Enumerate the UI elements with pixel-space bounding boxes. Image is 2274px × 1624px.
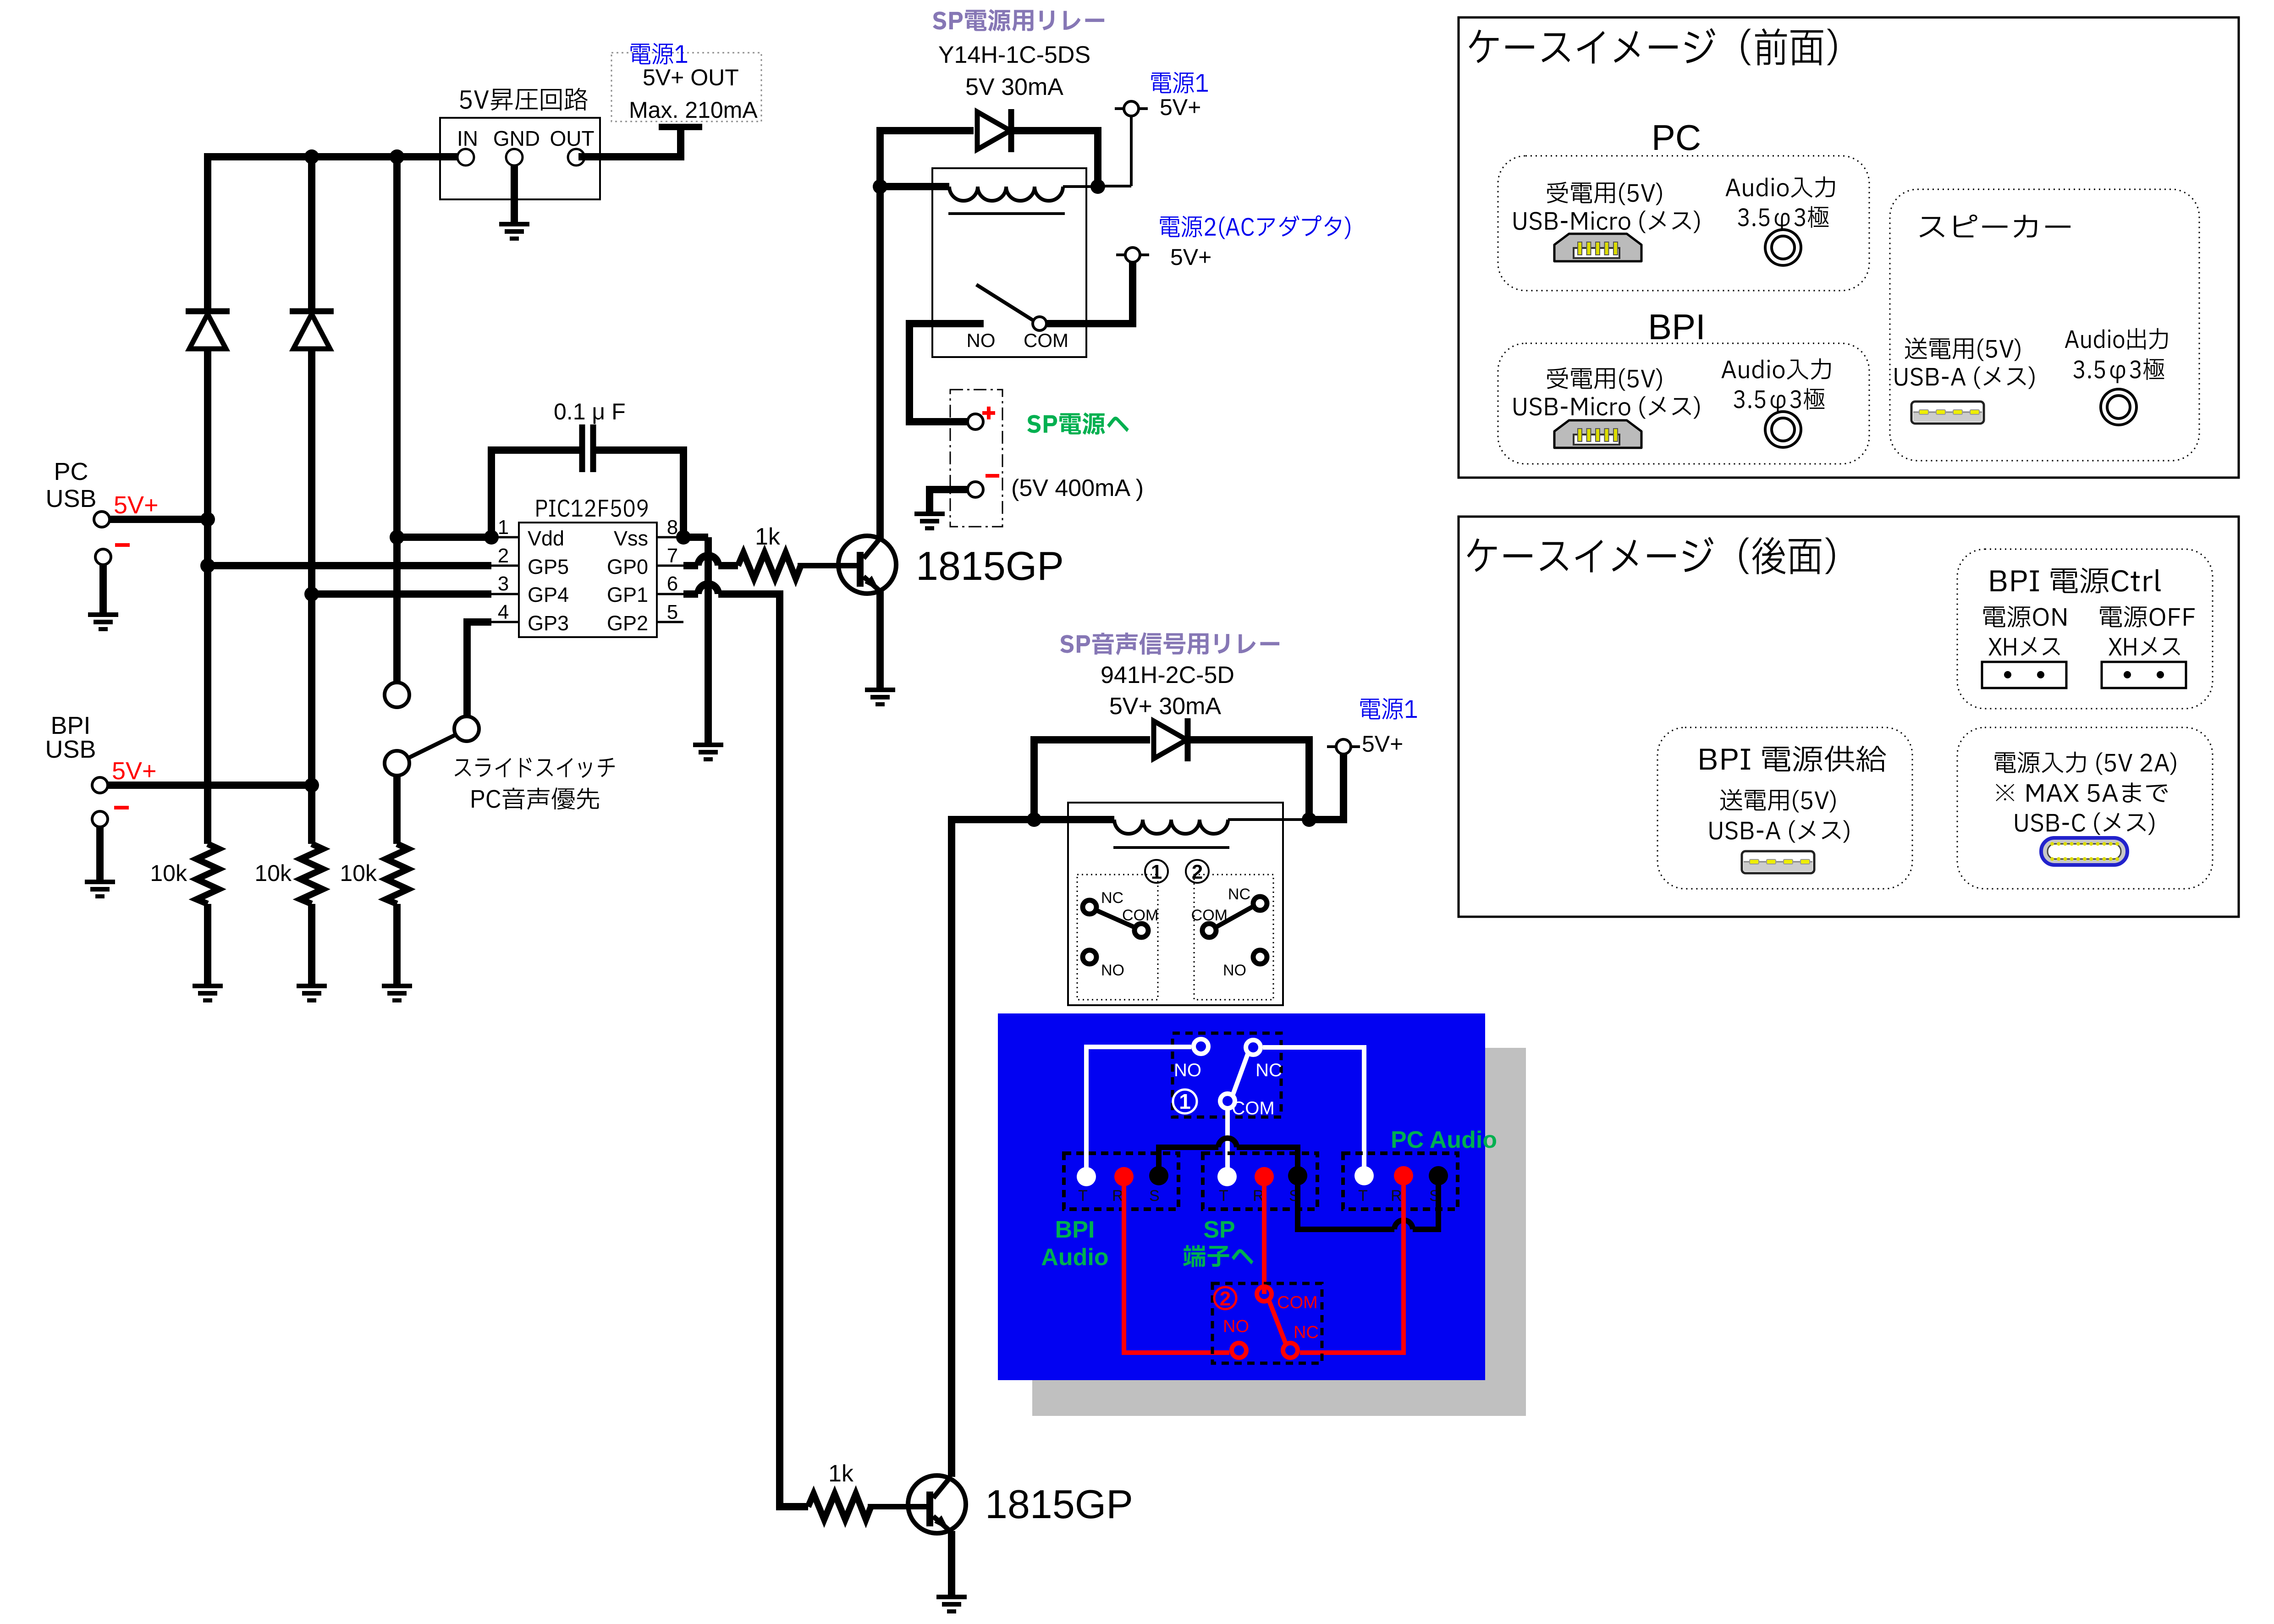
svg-text:1: 1	[1151, 861, 1162, 883]
group power input	[1957, 727, 2213, 889]
wire GP0 to R4 (hops Vss line)	[683, 562, 698, 569]
transistor Q2 1815GP	[908, 1475, 966, 1533]
photo shadow	[1032, 1048, 1526, 1416]
contact COM (photo)	[1220, 1094, 1235, 1108]
svg-text:8: 8	[667, 516, 678, 539]
diode D2	[290, 308, 334, 314]
svg-text:NC: NC	[1255, 1060, 1282, 1080]
panel case front	[1459, 17, 2239, 478]
switch SW1 slide switch	[385, 683, 409, 707]
svg-text:T: T	[1219, 1187, 1228, 1205]
svg-text:T: T	[1358, 1187, 1368, 1205]
wire Q1 emitter to ground	[876, 591, 884, 688]
terminal BPI USB minus	[114, 806, 129, 809]
junction PC-USB 5V	[200, 512, 215, 527]
svg-text:1: 1	[498, 516, 509, 539]
wire V2 upper (IN rail to diode D2)	[308, 153, 315, 311]
contact set 1 box (photo)	[1173, 1033, 1281, 1117]
svg-text:IN: IN	[457, 127, 478, 150]
wire R3 top (slide switch to R3)	[393, 775, 401, 844]
TRS terminals SP	[1203, 1153, 1317, 1209]
connector SP power out	[950, 390, 1002, 527]
terminal SP T	[1217, 1167, 1237, 1186]
svg-text:BPI: BPI	[1055, 1217, 1095, 1243]
contact NO2 (photo)	[1232, 1343, 1246, 1358]
svg-text:1815GP: 1815GP	[916, 543, 1064, 589]
ground (Q1)	[865, 688, 895, 692]
terminal PC USB minus	[115, 543, 130, 547]
svg-text:S: S	[1149, 1187, 1160, 1205]
svg-text:R: R	[1112, 1187, 1123, 1205]
junction Vss	[676, 530, 691, 545]
contact arm 2	[1217, 907, 1253, 927]
svg-text:1k: 1k	[755, 523, 781, 550]
svg-text:7: 7	[667, 545, 678, 567]
circled 2 (photo)	[1214, 1287, 1236, 1309]
icon USB-Micro receptacle	[1554, 234, 1641, 261]
icon USB-Micro receptacle	[1554, 420, 1641, 448]
svg-text:NO: NO	[967, 330, 996, 351]
ground (R3)	[382, 984, 412, 988]
photo blue background	[998, 1013, 1485, 1380]
svg-text:5V+: 5V+	[1170, 244, 1211, 270]
terminal SP+	[968, 414, 983, 429]
junction cap/Vdd	[484, 530, 499, 545]
transistor Q1 1815GP	[838, 536, 896, 594]
svg-text:BPI: BPI	[1648, 307, 1706, 347]
svg-text:T: T	[1078, 1187, 1088, 1205]
wire BPI 5V+ to V2	[108, 782, 312, 789]
ground (R1)	[193, 984, 223, 988]
ground (R2)	[297, 984, 327, 988]
junction GP4	[304, 587, 319, 601]
ground (Q2)	[936, 1595, 967, 1599]
junction RY1 coil left	[873, 179, 887, 194]
contact set 1 box	[1077, 875, 1158, 1000]
wire GP3	[463, 618, 471, 716]
contact COM2	[1202, 924, 1216, 937]
wire red PC-R to NC2	[1300, 1176, 1404, 1353]
icon 3.5mm jack	[1765, 412, 1801, 447]
svg-text:4: 4	[498, 601, 509, 623]
wire V1 lower (D1 to PC-USB node, GP5 node, R1)	[204, 347, 211, 844]
wire GP4	[312, 590, 491, 598]
svg-text:PC Audio: PC Audio	[1391, 1127, 1497, 1153]
panel case rear	[1459, 517, 2239, 917]
diode D1	[186, 308, 230, 314]
pin OUT	[568, 149, 584, 165]
TRS terminals BPI	[1064, 1153, 1178, 1209]
svg-text:941H-2C-5D: 941H-2C-5D	[1101, 662, 1234, 688]
wire R1 to ground	[204, 904, 211, 984]
wire COM to 電源2	[1046, 320, 1136, 327]
svg-text:5V+ 30mA: 5V+ 30mA	[1109, 693, 1222, 720]
terminal PC S	[1429, 1166, 1448, 1185]
contact NO2	[1253, 950, 1267, 964]
TRS terminals PC	[1343, 1153, 1458, 1209]
svg-text:2: 2	[1220, 1288, 1231, 1310]
junction RY2 coil right	[1302, 812, 1316, 827]
svg-text:NO: NO	[1223, 1317, 1249, 1336]
junction RY2 coil left	[1027, 812, 1041, 827]
wire C1 left lead	[491, 446, 579, 454]
wire 電源1 to coil right	[1130, 116, 1133, 186]
svg-text:USB: USB	[45, 485, 96, 512]
terminal PC R	[1394, 1166, 1413, 1185]
wire NO stub RY1	[909, 320, 984, 327]
relay RY2 box	[1068, 803, 1283, 1005]
wire R2 to ground	[308, 904, 315, 984]
wire Vdd rail	[397, 534, 491, 541]
contact arm 1	[1097, 911, 1134, 927]
wire SP- to ground	[930, 490, 968, 512]
wire GND stub	[511, 165, 518, 222]
svg-text:10k: 10k	[254, 860, 292, 886]
wire GP1 to R5	[780, 1503, 808, 1510]
ground (BPI USB)	[85, 880, 115, 884]
svg-text:1815GP: 1815GP	[985, 1481, 1133, 1527]
terminal 電源2	[1116, 253, 1149, 256]
wire Q1 collector to relay RY1 coil	[876, 187, 884, 538]
contact arm RY1	[976, 285, 1033, 320]
contact NC (photo)	[1246, 1040, 1261, 1055]
svg-text:GP0: GP0	[607, 555, 648, 578]
svg-text:NO: NO	[1101, 962, 1124, 979]
wire white NO (photo)	[1086, 1047, 1191, 1173]
icon 3.5mm jack	[2101, 389, 2136, 425]
terminal SP-	[968, 482, 983, 497]
wire RY1 flyback top	[880, 127, 974, 134]
wire Q2 emitter to ground	[948, 1531, 955, 1595]
icon XH connector	[2102, 662, 2186, 688]
contact set 2 box (photo)	[1212, 1283, 1322, 1363]
svg-text:COM: COM	[1232, 1098, 1274, 1118]
group speaker	[1890, 189, 2199, 461]
svg-text:NC: NC	[1228, 886, 1250, 903]
svg-text:NO: NO	[1174, 1060, 1201, 1080]
svg-text:2: 2	[498, 545, 509, 567]
icon 3.5mm jack	[1765, 230, 1801, 265]
svg-text:Vss: Vss	[614, 527, 648, 550]
svg-text:NC: NC	[1101, 889, 1123, 907]
svg-text:Vdd: Vdd	[528, 527, 564, 550]
ground (Vss)	[693, 743, 723, 747]
relay RY2 SP audio signal relay title	[1060, 632, 1279, 655]
contact COM RY1	[1033, 317, 1046, 330]
wire red BPI-R to NO2	[1124, 1177, 1229, 1353]
icon XH connector	[1982, 662, 2066, 688]
svg-text:1k: 1k	[828, 1460, 854, 1487]
svg-text:5V+: 5V+	[112, 757, 157, 785]
wire GP5	[208, 562, 491, 569]
wire C1 right lead	[596, 446, 683, 454]
contact arm 2 (photo)	[1269, 1300, 1286, 1345]
wire BPI minus to ground	[96, 827, 104, 880]
junction	[390, 149, 404, 164]
svg-text:COM: COM	[1122, 907, 1158, 924]
svg-text:10k: 10k	[150, 860, 187, 886]
circled 1	[1145, 860, 1168, 883]
svg-text:GP5: GP5	[528, 555, 569, 578]
svg-text:Max. 210mA: Max. 210mA	[629, 97, 758, 123]
wire R5 to Q2 base	[868, 1504, 927, 1509]
svg-text:Y14H-1C-5DS: Y14H-1C-5DS	[938, 42, 1090, 68]
junction Vdd rail	[390, 530, 404, 545]
contact set 2 box	[1194, 875, 1273, 1000]
svg-text:0.1 μ F: 0.1 μ F	[554, 399, 626, 424]
junction RY1 coil right	[1090, 179, 1105, 194]
pin IN	[457, 149, 474, 165]
svg-text:PC: PC	[54, 458, 88, 485]
wire white NC to PC T (photo)	[1263, 1047, 1364, 1173]
wire coil right to 電源1	[1309, 816, 1347, 823]
node IN-rail: top horizontal 5V wire	[208, 153, 457, 160]
contact COM1	[1134, 924, 1148, 937]
module 5V boost circuit box	[440, 118, 600, 199]
svg-text:GP3: GP3	[528, 611, 569, 635]
contact NC1	[1083, 900, 1096, 914]
IC U1 PIC12F509	[537, 500, 648, 517]
wire RY2 flyback top	[1034, 736, 1150, 743]
svg-text:COM: COM	[1024, 330, 1068, 351]
wire V3 (IN rail to Vdd node and slide switch)	[393, 153, 401, 683]
svg-text:GP1: GP1	[607, 583, 648, 606]
icon USB-A receptacle	[1742, 851, 1814, 873]
terminal BPI S	[1149, 1166, 1168, 1185]
junction BPI-USB 5V	[304, 778, 319, 793]
wire black BPI-S to SP-S (hops white)	[1159, 1147, 1218, 1176]
terminal BPI R	[1114, 1167, 1134, 1186]
contact COM2 (photo)	[1257, 1287, 1272, 1301]
terminal BPI T	[1077, 1167, 1096, 1186]
diode D4 (RY2 flyback)	[1154, 721, 1187, 759]
wire OUT to power rail 電源1	[578, 153, 681, 160]
wire RY2 coil rail	[948, 816, 1114, 823]
wire white COM to SP T (photo)	[1225, 1107, 1230, 1174]
svg-text:6: 6	[667, 573, 678, 595]
svg-text:2: 2	[1192, 861, 1203, 883]
coil RY2	[1114, 820, 1228, 834]
svg-text:PC: PC	[1652, 117, 1701, 158]
wire V1 upper (IN rail to diode D1)	[204, 153, 211, 311]
ground (PC USB)	[88, 612, 118, 617]
contact NC2	[1253, 897, 1267, 910]
node 電源1 output label box	[611, 53, 761, 121]
terminal 電源1 (RY1)	[1115, 107, 1148, 110]
icon USB-A receptacle	[1911, 402, 1984, 424]
wire R3 to ground	[393, 904, 401, 984]
svg-text:R: R	[1391, 1187, 1402, 1205]
diode D3 (RY1 flyback)	[977, 112, 1010, 149]
contact NO (photo)	[1194, 1039, 1208, 1054]
svg-text:5: 5	[667, 601, 678, 623]
ground (SP-)	[914, 512, 945, 516]
svg-text:5V+: 5V+	[1362, 731, 1403, 757]
wire black PC-S to SP-S (hops red)	[1413, 1176, 1438, 1229]
svg-text:BPI: BPI	[50, 712, 90, 739]
icon USB-C receptacle	[2041, 838, 2127, 865]
svg-text:NO: NO	[1223, 962, 1246, 979]
svg-text:5V+: 5V+	[1160, 94, 1201, 120]
wire RY2 coil to Q2 collector	[948, 816, 955, 1477]
wire PC minus to ground	[99, 565, 107, 612]
wire Vss to ground	[683, 534, 708, 541]
svg-text:GP2: GP2	[607, 611, 648, 635]
svg-text:(5V 400mA ): (5V 400mA )	[1011, 475, 1144, 501]
contact NC2 (photo)	[1283, 1343, 1298, 1358]
junction	[304, 149, 319, 164]
coil RY1	[880, 183, 949, 190]
svg-text:Audio: Audio	[1041, 1244, 1108, 1271]
wire PC 5V+ to V1	[110, 516, 208, 523]
svg-text:10k: 10k	[340, 860, 377, 886]
relay RY1 SP power relay title	[933, 9, 1104, 32]
terminal SP S	[1288, 1166, 1307, 1185]
wire GP1 (hops Vss line, down to R5)	[683, 590, 698, 598]
circled 1 (photo)	[1173, 1090, 1197, 1113]
svg-text:COM: COM	[1277, 1293, 1318, 1312]
svg-text:5V+ OUT: 5V+ OUT	[643, 65, 739, 90]
svg-text:5V+: 5V+	[114, 491, 159, 519]
svg-text:GP4: GP4	[528, 583, 569, 606]
svg-text:GND: GND	[493, 127, 540, 150]
wire red SP-R to COM2	[1262, 1177, 1266, 1294]
ground (5V boost)	[499, 222, 529, 226]
svg-text:5V 30mA: 5V 30mA	[965, 74, 1063, 100]
circled 2	[1186, 860, 1209, 883]
wire V2 lower (D2 to GP4 node, BPI-USB node, R2)	[308, 347, 315, 844]
group BPI power supply	[1657, 727, 1912, 889]
terminal 電源1 (RY2)	[1327, 745, 1360, 748]
svg-text:3: 3	[498, 573, 509, 595]
pin GND	[506, 149, 523, 165]
terminal SP R	[1255, 1167, 1274, 1186]
svg-text:USB: USB	[45, 736, 96, 763]
svg-text:SP: SP	[1203, 1217, 1235, 1243]
relay RY1 box	[932, 168, 1086, 357]
svg-text:OUT: OUT	[550, 127, 594, 150]
wire R4 to Q1 base	[798, 563, 858, 568]
terminal PC T	[1354, 1166, 1374, 1185]
contact NO1	[1083, 950, 1096, 964]
contact arm (photo sw1)	[1233, 1053, 1248, 1096]
svg-text:NC: NC	[1294, 1323, 1319, 1342]
junction GP5	[200, 558, 215, 573]
group BPI power ctrl	[1957, 549, 2213, 709]
svg-text:1: 1	[1179, 1090, 1191, 1113]
